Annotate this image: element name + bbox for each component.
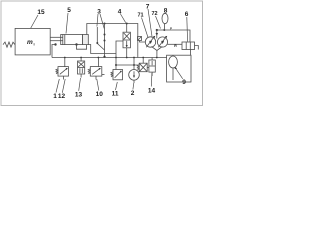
valve C spring — [88, 69, 90, 74]
valve A (1/12) — [58, 67, 69, 77]
filter to tank pipe — [190, 50, 192, 56]
pump circle B — [157, 37, 167, 47]
label 4 — [118, 9, 122, 16]
leader 2 — [132, 83, 135, 90]
svg-text:m: m — [27, 39, 33, 46]
leader 9 — [176, 69, 183, 79]
pilot line H2 — [116, 64, 139, 66]
leader 4 — [121, 14, 126, 23]
valve F top port — [142, 58, 144, 64]
junction dot branch top — [104, 34, 106, 36]
junction dot bus x116.5 — [115, 57, 117, 59]
leader 7 — [148, 9, 152, 37]
label 13 — [75, 91, 83, 98]
valve 2 left port pipe — [116, 41, 123, 70]
gauge stem — [163, 24, 165, 30]
pump A left stub — [140, 41, 146, 43]
pump B triangle — [161, 41, 164, 44]
label 11 — [112, 91, 119, 98]
svg-text:6: 6 — [185, 11, 189, 18]
leader 13 — [79, 78, 81, 91]
junction dot branch bottom — [104, 40, 106, 42]
valve B top port — [80, 58, 82, 62]
filter box 6 — [182, 42, 195, 50]
leader 11 — [116, 82, 118, 90]
cylinder bottom port dots — [54, 43, 56, 45]
pump feed vertical with arrow — [156, 30, 158, 39]
leader 15 — [31, 15, 39, 29]
pump A through-arrow — [146, 37, 154, 48]
leader 14 — [150, 73, 153, 87]
valve D spring — [111, 72, 113, 77]
valve 2 body (2-cell) — [123, 32, 130, 48]
tiny P mark — [170, 27, 172, 31]
valve 2 cross top cell — [124, 33, 130, 39]
svg-text:P: P — [170, 27, 172, 31]
svg-text:12: 12 — [58, 93, 66, 100]
svg-text:71: 71 — [137, 13, 143, 19]
rod lower line — [50, 40, 63, 42]
junction dot gauge — [163, 29, 165, 31]
valve G top port — [151, 58, 153, 61]
leader 71 — [142, 18, 149, 38]
spring (left wall to motor box) — [3, 42, 15, 47]
label 7 — [146, 4, 150, 11]
pipe vertical x104 — [104, 24, 106, 58]
valve C arrow — [92, 69, 100, 75]
valve G bottom stub — [151, 72, 153, 76]
svg-text:15: 15 — [37, 9, 45, 16]
piston second line — [64, 35, 66, 45]
valve B bottom stub — [80, 74, 82, 78]
pump circle E (2) — [129, 70, 140, 81]
valve C top port — [97, 58, 99, 67]
valve B top cell cross — [78, 62, 84, 67]
label 72 — [151, 11, 157, 17]
tank 9 — [167, 55, 191, 82]
svg-text:10: 10 — [96, 91, 104, 98]
svg-text:7: 7 — [146, 4, 150, 11]
valve F spring — [137, 65, 139, 70]
svg-text:14: 14 — [148, 88, 156, 95]
label 12 — [58, 93, 66, 100]
pump E bottom stub — [133, 80, 135, 83]
pump B through-arrow — [158, 37, 166, 48]
pump E top port — [133, 58, 135, 70]
pump A triangle — [149, 41, 152, 44]
valve G arrow — [151, 61, 153, 65]
tank oval stem — [172, 68, 174, 80]
junction dot pump top — [156, 29, 158, 31]
motor text m — [27, 39, 35, 47]
junction dot H2-a — [115, 64, 117, 66]
svg-text:72: 72 — [151, 11, 157, 17]
svg-text:i: i — [34, 42, 35, 47]
label 9 — [182, 79, 186, 86]
svg-text:13: 13 — [75, 91, 83, 98]
valve C right stub — [102, 74, 105, 76]
leader 5 — [66, 13, 68, 34]
valve F right tick — [147, 66, 149, 68]
label 2 — [131, 90, 135, 97]
bus line bottom — [52, 57, 167, 59]
label 5 — [67, 7, 71, 14]
junction dot x104 bus — [103, 56, 105, 58]
gauge oval 8 — [162, 13, 168, 23]
label 10 — [96, 91, 104, 98]
leader 1 — [56, 79, 59, 93]
filter right stub — [195, 46, 199, 50]
leader 72 — [156, 16, 161, 29]
label 14 — [148, 88, 156, 95]
junction dot H2-b — [133, 64, 135, 66]
label 8 — [164, 8, 168, 15]
valve A bottom stub — [63, 76, 65, 79]
label 1 — [53, 93, 57, 100]
pipe P1 top — [87, 24, 138, 58]
leader 3 right — [100, 14, 104, 29]
pipe pump B to filter — [167, 43, 182, 45]
svg-text:11: 11 — [112, 91, 119, 98]
pump circle A — [145, 37, 155, 47]
valve A spring — [56, 69, 58, 74]
motor box M1 — [15, 28, 50, 55]
leader 6 — [186, 17, 189, 42]
label 3 — [97, 9, 101, 16]
branch to x97 — [96, 27, 98, 44]
cylinder end block — [83, 35, 89, 45]
valve C bottom stub — [95, 76, 97, 79]
valve 2 top port — [126, 24, 128, 33]
pipe from end block to valve feed — [88, 45, 116, 54]
valve B (13) — [78, 61, 85, 74]
valve 2 bottom port — [126, 48, 128, 58]
valve D (11) — [113, 70, 123, 80]
label 71 — [137, 13, 143, 19]
pipe U under cylinder — [77, 45, 87, 50]
valve C (10) — [90, 67, 102, 77]
junction dot P1-b — [126, 23, 128, 25]
svg-text:2: 2 — [131, 90, 135, 97]
piston rod to motor box — [50, 36, 63, 38]
svg-text:1: 1 — [53, 93, 57, 100]
junction dot P1-a — [104, 23, 106, 25]
R mark — [174, 44, 177, 48]
tank oval pump — [169, 56, 178, 68]
svg-text:5: 5 — [67, 7, 71, 14]
pipe from left port down to bus — [52, 45, 56, 58]
valve G (14) — [149, 60, 155, 72]
pipe top right horizontal — [157, 30, 190, 42]
valve B bottom cell lines — [79, 68, 81, 73]
label 6 — [185, 11, 189, 18]
border frame — [1, 1, 203, 106]
junction dot bus-125 — [126, 57, 128, 59]
cylinder 5 barrel — [61, 35, 83, 45]
valve 2 arrow bottom cell — [126, 41, 128, 47]
valve F (X) — [139, 63, 147, 71]
pump E triangle — [133, 71, 135, 77]
drain box left of pump — [138, 37, 142, 41]
valve A arrow — [60, 69, 67, 75]
leader 12 — [62, 79, 65, 93]
leader 10 — [97, 79, 99, 91]
label 15 — [37, 9, 45, 16]
svg-text:9: 9 — [182, 79, 186, 86]
valve A top port — [64, 58, 66, 67]
leader 3 left — [97, 14, 98, 27]
junction dot bus-156 — [156, 57, 158, 59]
cylinder piston — [62, 35, 64, 45]
valve D arrow — [115, 71, 121, 78]
